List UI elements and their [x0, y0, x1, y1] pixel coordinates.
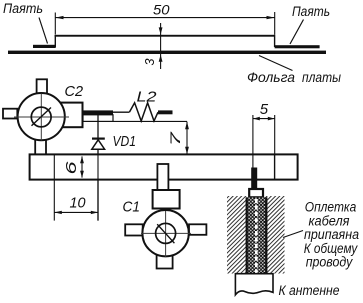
svg-text:50: 50 — [153, 1, 170, 17]
svg-text:3: 3 — [143, 59, 157, 66]
svg-text:Фольга: Фольга — [247, 69, 295, 85]
svg-text:К антенне: К антенне — [279, 283, 340, 298]
svg-text:10: 10 — [70, 195, 87, 212]
svg-text:L2: L2 — [137, 89, 158, 106]
svg-text:VD1: VD1 — [113, 133, 137, 150]
svg-text:6: 6 — [63, 160, 80, 174]
svg-text:проводу: проводу — [306, 255, 354, 270]
svg-text:5: 5 — [260, 101, 269, 118]
svg-text:Паять: Паять — [292, 4, 330, 19]
svg-text:платы: платы — [302, 69, 342, 85]
svg-text:7: 7 — [168, 131, 183, 146]
svg-text:C1: C1 — [123, 199, 141, 216]
svg-text:C2: C2 — [65, 83, 84, 100]
svg-text:Паять: Паять — [3, 1, 43, 16]
